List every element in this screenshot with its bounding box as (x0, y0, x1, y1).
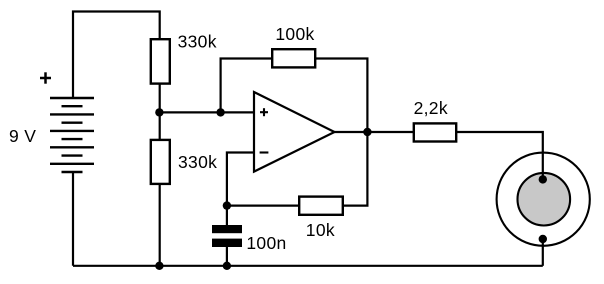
wire: op-amp - input left and down to node C (227, 153, 254, 227)
battery B1 (9V multi-cell) (50, 98, 94, 172)
wire: node C right to R4 (10k) left lead (227, 205, 299, 207)
wire: op-amp output to R5 (2.2k) left lead (335, 131, 414, 133)
svg-text:2,2k: 2,2k (414, 98, 448, 118)
junction bottom rail / capacitor (223, 262, 231, 270)
op-amp - input mark (260, 151, 269, 153)
wire: R5 right lead right and down to speaker top terminal (456, 132, 543, 179)
svg-text:330k: 330k (178, 31, 217, 51)
resistor 100k (feedback) (272, 49, 315, 67)
junction output node (363, 128, 371, 136)
wire: node A horizontal to op-amp + input (160, 111, 254, 113)
wire: bottom rail (73, 265, 543, 267)
speaker bottom terminal dot (539, 235, 547, 243)
wire: R2 (lower 330k) top lead from node A (159, 112, 161, 139)
junction node C (cap / 10k / - input) (223, 201, 231, 209)
svg-text:10k: 10k (306, 220, 335, 240)
wire: R1 bottom to node A (159, 84, 161, 112)
op-amp + input mark (260, 108, 268, 116)
resistor 330k (lower divider) (151, 140, 170, 184)
svg-text:100k: 100k (275, 24, 314, 44)
speaker LS1 outer rim (497, 153, 590, 246)
resistor 2,2k (414, 123, 456, 141)
junction bottom rail / R2 (155, 262, 163, 270)
wire: capacitor bottom lead to bottom rail (226, 246, 228, 266)
svg-text:100n: 100n (246, 233, 286, 253)
svg-text:9 V: 9 V (9, 126, 36, 146)
wire: R2 bottom lead down to bottom rail (159, 184, 161, 266)
speaker top terminal dot (539, 175, 547, 183)
resistor 10k (299, 197, 343, 215)
wire: battery + terminal up and across to R1 top (73, 12, 160, 99)
wire: node B up and right to R3 (100k) left lead (221, 59, 273, 113)
op-amp U1 (254, 92, 335, 172)
capacitor 100n plate 1 (212, 225, 242, 233)
wire: battery - terminal down to bottom rail (72, 172, 74, 266)
wire: R4 right lead to output node vertical (343, 132, 368, 206)
resistor 330k (upper divider) (151, 39, 170, 83)
capacitor 100n plate 2 (212, 239, 242, 247)
speaker membrane (gray) (518, 173, 571, 226)
junction node A (divider midpoint) (155, 108, 163, 116)
svg-text:330k: 330k (178, 152, 217, 172)
junction node B (+ input / feedback tap) (216, 108, 224, 116)
wire: speaker bottom down to bottom rail (542, 239, 544, 266)
wire: R3 right lead right and down to output node (315, 59, 367, 133)
battery + polarity mark (40, 72, 51, 83)
